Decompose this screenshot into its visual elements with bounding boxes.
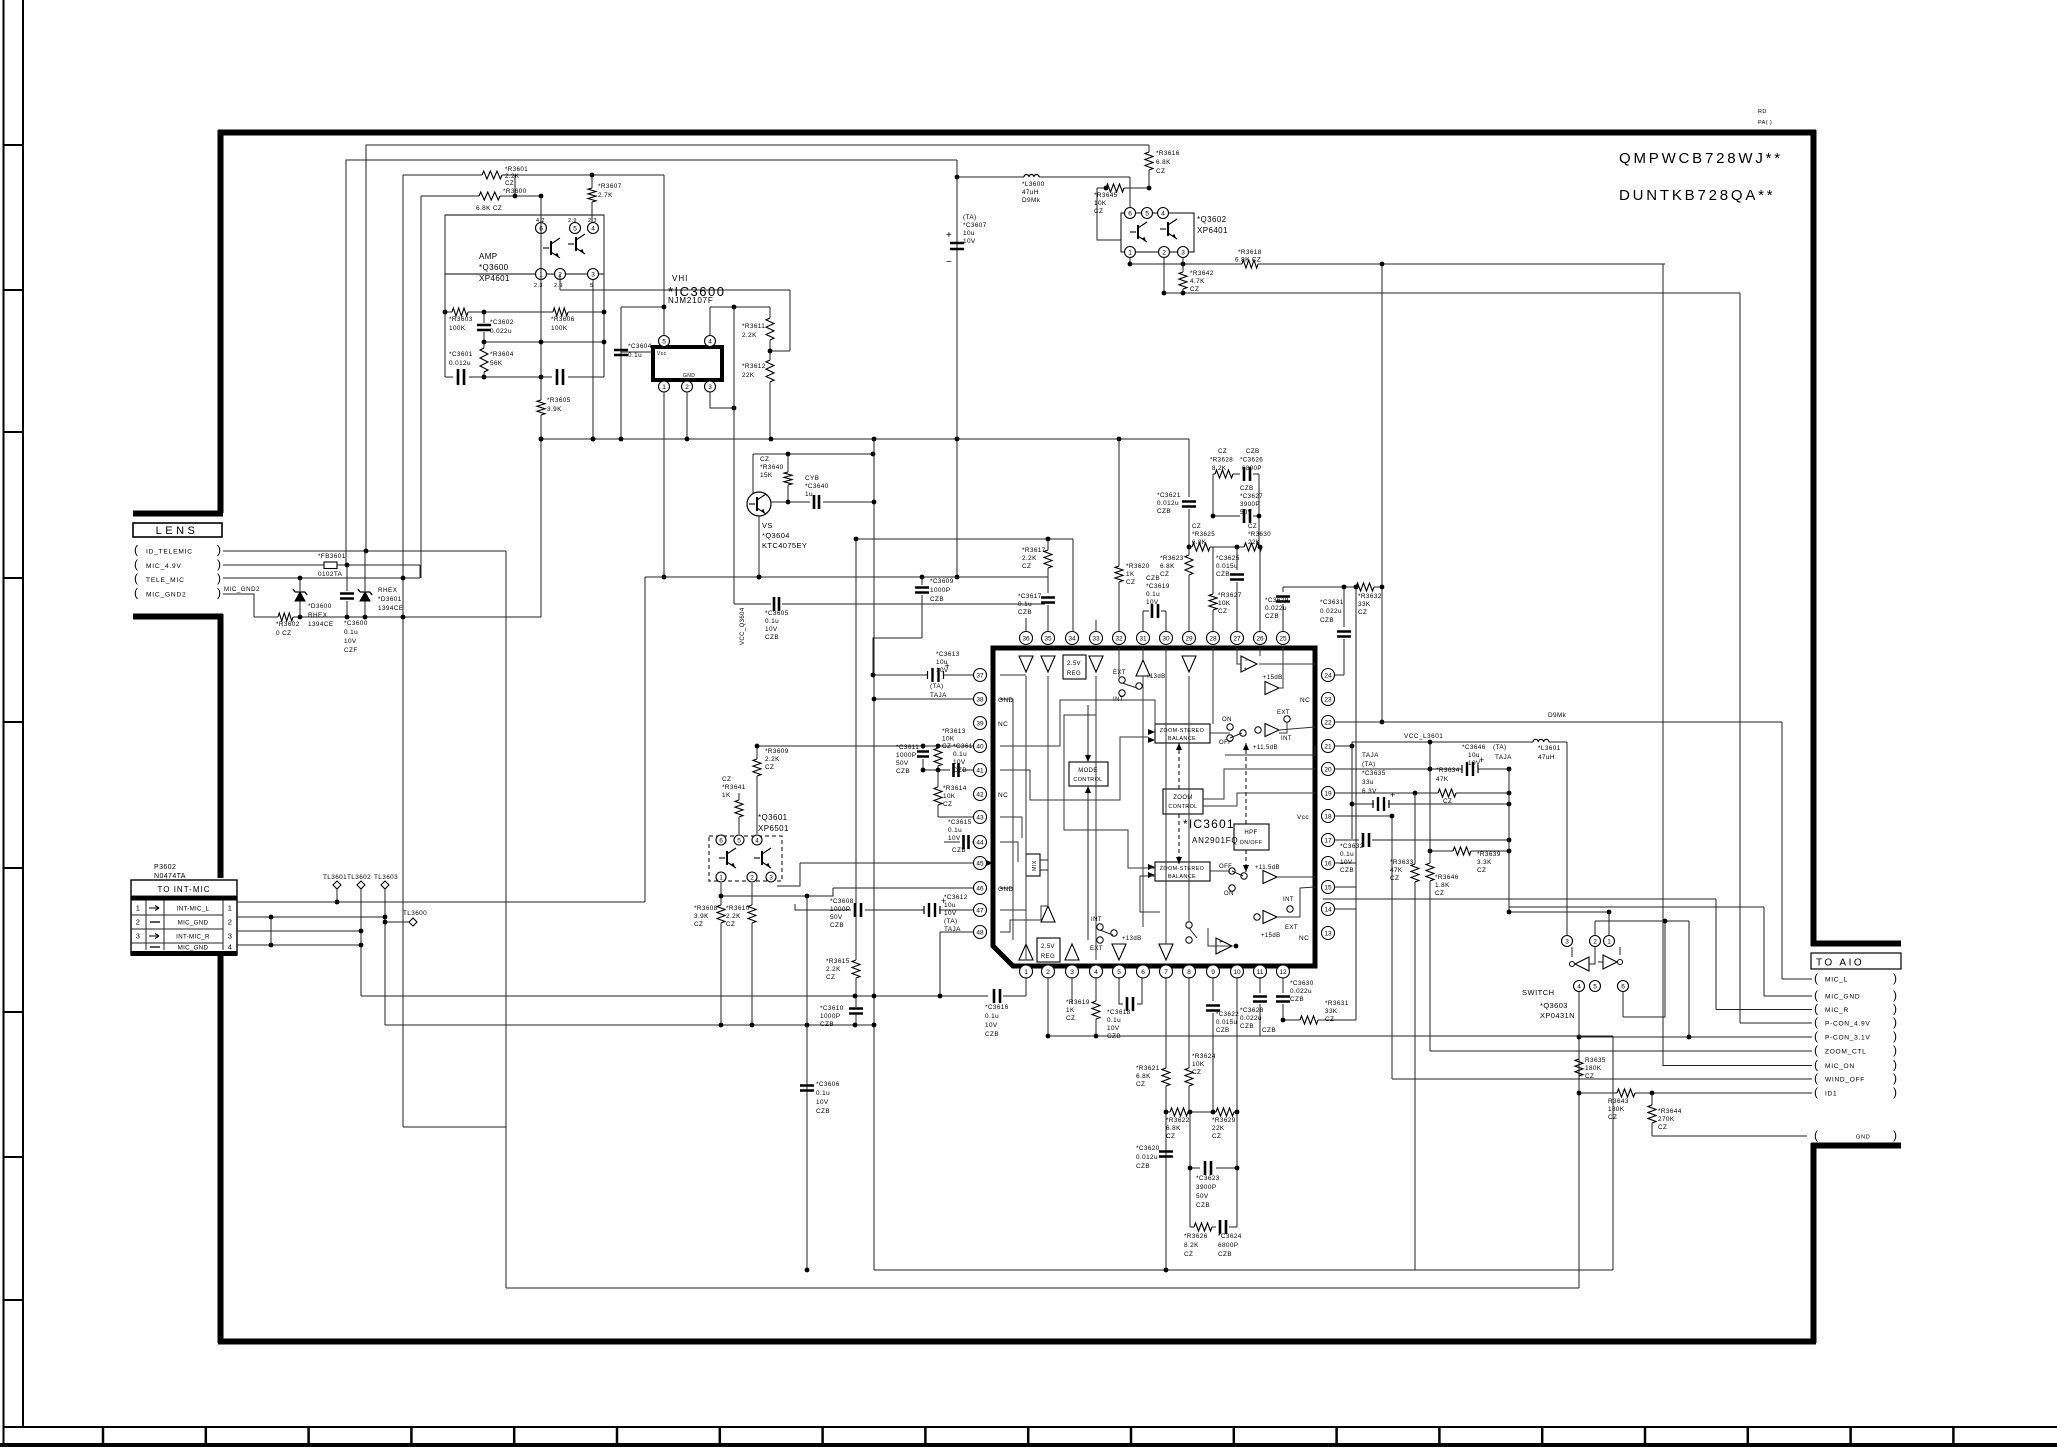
fuse FB3601 (324, 562, 337, 569)
svg-text:(: ( (1814, 1085, 1818, 1099)
svg-text:*R3622: *R3622 (1166, 1117, 1190, 1124)
IC3601 pin 47 (974, 904, 987, 917)
column pin4 R3619 (1095, 977, 1097, 1001)
main schematic border left middle (218, 614, 224, 878)
series capacitor pair right (557, 369, 563, 385)
svg-text:0.022u: 0.022u (490, 328, 512, 335)
svg-text:*L3600: *L3600 (1022, 181, 1045, 188)
R3642 row y=293 (1164, 292, 1740, 294)
svg-text:*Q3601: *Q3601 (758, 813, 788, 822)
resistor R3609 2.2K (756, 746, 758, 759)
svg-text:3: 3 (1070, 969, 1074, 976)
svg-text:DUNTKB728QA**: DUNTKB728QA** (1619, 187, 1775, 204)
svg-text:4.2: 4.2 (536, 218, 545, 224)
sheet frame bottom edge bar (0, 1443, 2057, 1447)
IC3601 internal wires (1025, 676, 1027, 960)
svg-text:0.1u: 0.1u (948, 827, 962, 834)
wire MIC_4.9V jog x=420 (419, 565, 421, 578)
IC3601 pin 40 (974, 740, 987, 753)
svg-text:+15dB: +15dB (1263, 675, 1283, 681)
svg-text:BALANCE: BALANCE (1168, 736, 1196, 742)
IC3601 pin 34 (1066, 632, 1079, 645)
svg-text:CZB: CZB (816, 1108, 830, 1115)
svg-text:10u: 10u (1468, 752, 1480, 759)
IC3601 pin 28 (1207, 632, 1220, 645)
svg-text:VCC_Q3604: VCC_Q3604 (740, 607, 746, 645)
svg-text:2: 2 (1046, 969, 1050, 976)
svg-text:4: 4 (1161, 210, 1165, 217)
svg-text:0.1u: 0.1u (1107, 1017, 1121, 1024)
resistor R3614 10K (937, 770, 939, 787)
svg-text:MIC_4.9V: MIC_4.9V (146, 563, 182, 570)
wire pin2-pin4 link x=271 (270, 917, 272, 945)
svg-text:(: ( (1814, 1128, 1818, 1142)
svg-text:1000P: 1000P (896, 752, 916, 759)
svg-text:R3643: R3643 (1608, 1098, 1629, 1105)
svg-text:*C3619: *C3619 (1146, 583, 1170, 590)
svg-text:33K: 33K (1358, 601, 1371, 608)
svg-text:11: 11 (1257, 969, 1264, 976)
main schematic border left lower (218, 955, 224, 1343)
IC3600 pin 2 (682, 381, 693, 392)
column x=1509 (1508, 769, 1510, 912)
svg-text:INT-MIC_L: INT-MIC_L (177, 906, 210, 913)
svg-text:CZB: CZB (1218, 1251, 1232, 1258)
svg-text:10V: 10V (344, 638, 357, 645)
svg-text:5: 5 (1145, 210, 1149, 217)
svg-text:43: 43 (976, 814, 984, 821)
VCC_L3601 rail (1352, 741, 1533, 743)
svg-text:10V: 10V (936, 667, 949, 674)
svg-text:9: 9 (1211, 969, 1215, 976)
svg-text:4: 4 (708, 338, 712, 345)
svg-text:CZB: CZB (1240, 1023, 1254, 1030)
wire MIC_GND2 row (223, 594, 254, 617)
svg-text:TAJA: TAJA (1362, 752, 1379, 759)
svg-text:INT: INT (1281, 736, 1292, 742)
svg-text:CZ: CZ (694, 921, 703, 928)
svg-text:TL3600: TL3600 (403, 910, 427, 917)
IC3601 internal amp INT upper (1265, 724, 1279, 737)
svg-text:CZB: CZB (1240, 485, 1254, 492)
svg-text:RD: RD (1758, 109, 1767, 115)
svg-text:10u: 10u (936, 659, 948, 666)
wire Q3604 emitter (758, 516, 760, 577)
svg-text:270K: 270K (1658, 1116, 1675, 1123)
capacitor C3613 10u polarized (874, 674, 928, 676)
svg-text:CZB: CZB (1216, 571, 1230, 578)
resistor R3601 2.2K (482, 171, 502, 179)
svg-text:*C3608: *C3608 (830, 898, 854, 905)
bus y=1025 (385, 1024, 874, 1026)
svg-text:N0474TA: N0474TA (154, 873, 186, 880)
svg-text:AN2901FQ: AN2901FQ (1192, 836, 1238, 845)
svg-text:26: 26 (1256, 635, 1264, 642)
resistor R3602 (278, 613, 293, 621)
svg-text:CZ: CZ (1192, 1069, 1201, 1076)
svg-text:*R3603: *R3603 (449, 316, 473, 323)
main schematic border TO-AIO notch upper bar (1811, 941, 1901, 947)
svg-text:45: 45 (976, 860, 984, 867)
Q3601 pin 1 (716, 872, 726, 882)
column x=1026 pin36 stub (1025, 618, 1027, 631)
svg-text:39: 39 (976, 720, 984, 727)
svg-text:33: 33 (1092, 635, 1100, 642)
svg-text:50V: 50V (1240, 509, 1253, 516)
svg-text:CZB: CZB (1216, 1027, 1230, 1034)
svg-text:): ) (1893, 1128, 1897, 1142)
column x=1213 R3627 pin28 (1212, 547, 1214, 594)
svg-text:CZ: CZ (1156, 168, 1165, 175)
svg-text:1000P: 1000P (830, 906, 850, 913)
svg-text:(TA): (TA) (944, 918, 958, 925)
svg-text:CZB: CZB (896, 768, 910, 775)
pin24 row stub (1335, 674, 1345, 676)
svg-text:*C3609: *C3609 (930, 578, 954, 585)
svg-text:6.8K: 6.8K (1192, 539, 1207, 546)
column x=1048 R3617 C3617 pin35 (1047, 539, 1049, 550)
svg-text:*C3632: *C3632 (1340, 843, 1364, 850)
svg-text:*R3617: *R3617 (1022, 547, 1046, 554)
wire TELE_MIC row y=578 (223, 577, 420, 579)
svg-text:0.012u: 0.012u (1157, 500, 1179, 507)
svg-text:0.015u: 0.015u (1216, 1019, 1237, 1026)
svg-text:MIC_GND2: MIC_GND2 (146, 592, 186, 599)
svg-text:0102TA: 0102TA (318, 571, 343, 578)
svg-text:CZB: CZB (953, 767, 967, 774)
wire row y=342 (484, 341, 604, 343)
wire R3607 column (591, 175, 593, 188)
svg-text:INT: INT (1283, 897, 1294, 903)
riser x=1782 MIC_L (1781, 722, 1783, 979)
svg-text:18: 18 (1324, 813, 1332, 820)
svg-text:*R3601: *R3601 (505, 166, 528, 173)
svg-text:10K: 10K (1192, 1061, 1205, 1068)
IC3601 internal dashed link upper (1178, 743, 1180, 789)
column pin11 C3628 (1259, 977, 1261, 993)
svg-text:CZ: CZ (942, 743, 951, 750)
column pin7 R3621 (1165, 977, 1167, 1068)
svg-text:3900P: 3900P (1196, 1184, 1216, 1191)
svg-text:*R3605: *R3605 (547, 397, 571, 404)
Q3602 pin 1 (1125, 247, 1136, 258)
svg-text:0.1u: 0.1u (953, 751, 967, 758)
svg-text:CZ: CZ (760, 456, 769, 463)
svg-text:Vcc: Vcc (657, 351, 667, 357)
wire INT-MIC pin4 row y=945 (237, 944, 361, 946)
svg-text:NC: NC (1299, 935, 1309, 942)
svg-text:*Q3604: *Q3604 (762, 531, 790, 540)
IC3601 internal buffer 33 (1089, 656, 1103, 672)
wire INT-MIC pin2 row y=917 (237, 916, 385, 918)
svg-text:2.2K: 2.2K (826, 966, 841, 973)
IC3601 internal amp +13dB top (1136, 660, 1150, 676)
svg-text:*R3607: *R3607 (598, 183, 622, 190)
Q3601 pin 2 (747, 872, 757, 882)
svg-text:33K: 33K (1325, 1008, 1338, 1015)
svg-text:(: ( (1814, 1002, 1818, 1016)
wire R3600 row y=196 (421, 195, 479, 197)
wire pin45 row y=863 (800, 862, 974, 864)
svg-text:*C3646: *C3646 (1462, 744, 1486, 751)
svg-text:22K: 22K (1212, 1125, 1225, 1132)
wire R3645 left column (1097, 188, 1121, 240)
wire top-left loop y=160 to C3607 column (346, 160, 957, 565)
svg-text:*IC3601: *IC3601 (1183, 817, 1235, 831)
svg-text:47K: 47K (1436, 776, 1449, 783)
svg-text:10V: 10V (765, 626, 778, 633)
resistor R3611 2.2K (766, 318, 774, 340)
svg-text:CZ: CZ (1066, 1015, 1075, 1022)
svg-text:CZB: CZB (830, 922, 844, 929)
svg-text:*C3606: *C3606 (816, 1081, 840, 1088)
Q3603 pin 6 (1618, 981, 1629, 992)
column pin9 C3622 (1212, 977, 1214, 1001)
wire Q3602 pin6 column (1129, 177, 1131, 207)
svg-text:3: 3 (591, 271, 595, 278)
capacitor C3606 0.1u (800, 1086, 814, 1091)
svg-text:*C3616: *C3616 (985, 1004, 1009, 1011)
C3623 box (1189, 1112, 1191, 1227)
svg-text:*C3600: *C3600 (344, 620, 368, 627)
svg-text:+11.5dB: +11.5dB (1255, 865, 1280, 871)
svg-text:25: 25 (1279, 635, 1287, 642)
svg-text:CZB: CZB (1146, 575, 1160, 582)
svg-text:*R3640: *R3640 (760, 464, 784, 471)
svg-text:CZ: CZ (1192, 523, 1201, 530)
wire row y=307 C3604 to pin5 column (621, 306, 664, 308)
svg-text:R3635: R3635 (1585, 1057, 1606, 1064)
wire INT-MIC pin3 row y=931 (237, 930, 361, 932)
C3635 row y=804 (1352, 803, 1374, 805)
svg-text:P-CON_3.1V: P-CON_3.1V (1825, 1035, 1870, 1042)
resistor R3635 180K (1575, 1059, 1583, 1076)
Q3600 pin 2 (555, 269, 566, 280)
Q3603 pin 2 (1590, 936, 1601, 947)
Q3601 transistor B (761, 851, 763, 865)
svg-text:0.012u: 0.012u (1136, 1154, 1158, 1161)
main schematic border TO-AIO notch lower bar (1811, 1143, 1901, 1149)
IC3601 pin 33 (1090, 632, 1103, 645)
resistor R3610 2.2K (751, 883, 753, 905)
svg-text:10V: 10V (1107, 1025, 1120, 1032)
svg-text:6800P: 6800P (1218, 1242, 1238, 1249)
svg-text:VHI: VHI (672, 274, 688, 283)
main schematic border right lower (1811, 1143, 1817, 1343)
IC3601 pin 39 (974, 717, 987, 730)
svg-text:CZ: CZ (726, 921, 735, 928)
IC3601 pin 48 (974, 926, 987, 939)
svg-text:*R3634: *R3634 (1436, 767, 1460, 774)
svg-text:): ) (1893, 1043, 1897, 1057)
svg-text:40: 40 (976, 743, 984, 750)
svg-text:47: 47 (976, 907, 984, 914)
wire row y=177 with L3600 (957, 176, 1024, 178)
svg-text:+13dB: +13dB (1122, 936, 1142, 942)
svg-text:*C3602: *C3602 (490, 319, 514, 326)
test point TL3602 (357, 881, 365, 889)
svg-text:20: 20 (1324, 766, 1332, 773)
svg-text:CZ: CZ (722, 776, 731, 783)
svg-text:22K: 22K (1248, 539, 1261, 546)
capacitor C3640 1u (814, 495, 819, 509)
IC3601 pin 4 (1090, 965, 1103, 978)
svg-text:CZ: CZ (1166, 1133, 1175, 1140)
svg-text:8: 8 (1187, 969, 1191, 976)
resistor R3608 3.9K (720, 883, 722, 905)
pin18 Vcc row (1335, 815, 1393, 817)
svg-text:0.015u: 0.015u (1216, 563, 1238, 570)
svg-text:(: ( (1814, 971, 1818, 985)
svg-text:*R3615: *R3615 (826, 958, 850, 965)
svg-text:*R3616: *R3616 (1156, 150, 1180, 157)
wire R3611-R3612 column x=770 (769, 307, 771, 318)
riser x=1356 (1355, 587, 1357, 1020)
svg-text:2.5V: 2.5V (1041, 944, 1055, 950)
svg-text:10u: 10u (944, 902, 956, 909)
column x=1283 C3629 pin25 (1282, 587, 1284, 592)
wire Q3600 pin2 column x=560 (559, 274, 561, 290)
Q3603 inverter B (1603, 955, 1617, 969)
svg-text:NC: NC (998, 792, 1008, 799)
svg-text:RHEX: RHEX (308, 612, 328, 619)
svg-text:*R3625: *R3625 (1192, 531, 1215, 538)
svg-text:(: ( (134, 543, 138, 557)
svg-text:2: 2 (1593, 938, 1597, 945)
column x=506 long (505, 551, 507, 1288)
IC3600 pin 1 (659, 381, 670, 392)
svg-text:): ) (1893, 988, 1897, 1002)
svg-text:2.9: 2.9 (554, 283, 563, 289)
svg-text:0.022u: 0.022u (1265, 605, 1287, 612)
svg-text:CZB: CZB (1196, 1202, 1210, 1209)
svg-text:10V: 10V (816, 1099, 829, 1106)
svg-text:−: − (1244, 658, 1248, 664)
capacitor C3607 10u polarized (956, 160, 958, 577)
svg-text:): ) (217, 557, 221, 571)
svg-text:*C3623: *C3623 (1196, 1175, 1220, 1182)
svg-text:10V: 10V (953, 759, 966, 766)
sheet frame bottom ruler ticks (102, 1427, 105, 1445)
svg-text:*R3633: *R3633 (1390, 859, 1414, 866)
svg-text:TL3603: TL3603 (374, 874, 398, 881)
svg-text:MIC_GND: MIC_GND (1825, 994, 1860, 1001)
column x=856 with R3615 C3610 (855, 539, 857, 960)
wire IC3600 pin1 down (663, 392, 665, 577)
svg-text:GND: GND (1856, 1135, 1871, 1141)
svg-text:0 CZ: 0 CZ (276, 630, 291, 637)
wire x=515 R3601-R3600 link (514, 175, 516, 196)
svg-text:6: 6 (1128, 210, 1132, 217)
svg-text:34: 34 (1068, 635, 1076, 642)
Q3603 inverter A (1575, 957, 1589, 971)
wire R3601 row y=175 (403, 174, 482, 176)
svg-text:CZB: CZB (1340, 867, 1354, 874)
main schematic border right upper (1811, 130, 1817, 946)
wire x=734 column (733, 307, 735, 604)
IC3601 internal dashed link lower (1178, 814, 1180, 864)
svg-text:CZB: CZB (1262, 1027, 1276, 1034)
svg-text:3: 3 (708, 384, 712, 391)
wire y=896 link row (721, 888, 833, 896)
svg-text:3: 3 (136, 932, 141, 941)
svg-text:CZ: CZ (826, 974, 835, 981)
row y=587 R3632 (1283, 586, 1356, 588)
svg-text:37: 37 (976, 672, 984, 679)
filter block sides (444, 215, 446, 377)
series capacitor pair left (458, 369, 464, 385)
IC3601 pin 31 (1137, 632, 1150, 645)
Q3600 pin 3 (588, 269, 599, 280)
IC3601 pin 10 (1231, 965, 1244, 978)
IC3601 pin 14 (1322, 903, 1335, 916)
svg-text:35: 35 (1044, 635, 1052, 642)
svg-text:1: 1 (136, 904, 141, 913)
svg-text:*R3620: *R3620 (1126, 563, 1150, 570)
IC3601 pin 42 (974, 788, 987, 801)
svg-text:*R3604: *R3604 (490, 351, 514, 358)
svg-text:8.2K: 8.2K (1184, 1242, 1199, 1249)
IC3601 pin 35 (1042, 632, 1055, 645)
capacitor C3602 0.022u (477, 325, 491, 330)
svg-text:CZ: CZ (1212, 1133, 1221, 1140)
svg-text:3.9K: 3.9K (547, 406, 562, 413)
svg-text:MODE: MODE (1078, 768, 1098, 774)
svg-text:5: 5 (737, 837, 741, 844)
IC3601 pin 7 (1160, 965, 1173, 978)
wire Q3600 pin3 column (592, 274, 594, 439)
svg-text:180K: 180K (1585, 1065, 1602, 1072)
wire Q3602 pin1 down (1129, 258, 1131, 264)
column pin2 to bus y=1036 (1047, 977, 1049, 1036)
svg-text:TL3601: TL3601 (323, 874, 347, 881)
svg-text:CZ: CZ (1184, 1251, 1193, 1258)
column pin1 to bus (1025, 977, 1027, 996)
IC3601 pin 19 (1322, 787, 1335, 800)
column x=1119 R3620 pin32 (1118, 439, 1120, 566)
TO AIO connector block (1811, 953, 1901, 969)
row y=539 (856, 538, 1073, 540)
resistor R3643 180K (1579, 1092, 1617, 1094)
resistor R3616 6.8K (1145, 152, 1153, 170)
svg-text:0.1u: 0.1u (1146, 591, 1160, 598)
IC3601 pin 36 (1020, 632, 1033, 645)
svg-text:10V: 10V (1468, 760, 1481, 767)
svg-text:): ) (217, 586, 221, 600)
TO AIO row wires (1782, 978, 1812, 980)
svg-text:2.2K: 2.2K (765, 756, 780, 763)
svg-text:4: 4 (228, 943, 233, 952)
svg-text:*R3626: *R3626 (1184, 1233, 1208, 1240)
resistor R3606 100K (553, 308, 568, 316)
svg-text:ID_TELEMIC: ID_TELEMIC (146, 549, 193, 556)
svg-text:3.9K: 3.9K (694, 913, 709, 920)
wire pin46 row y=888 (833, 887, 974, 889)
svg-text:1u: 1u (805, 491, 813, 498)
IC3601 pin 25 (1277, 632, 1290, 645)
svg-text:CZB: CZB (1290, 996, 1304, 1003)
svg-text:CYB: CYB (805, 475, 819, 482)
svg-text:MIC_GND: MIC_GND (178, 945, 209, 952)
wire left column x=403 (402, 175, 404, 1127)
svg-text:5: 5 (1117, 969, 1121, 976)
IC3601 pin 27 (1231, 632, 1244, 645)
svg-text:CZ: CZ (1658, 1124, 1667, 1131)
IC3601 pin 38 (974, 693, 987, 706)
svg-text:Vcc: Vcc (1297, 814, 1309, 821)
svg-text:CZ: CZ (1022, 563, 1031, 570)
svg-text:QMPWCB728WJ**: QMPWCB728WJ** (1619, 150, 1783, 167)
